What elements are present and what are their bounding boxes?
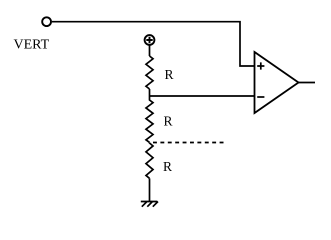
wire top from terminal to op-amp + input <box>52 22 255 66</box>
svg-text:R: R <box>165 67 174 82</box>
op-amp + input mark <box>257 62 264 69</box>
resistor R1 <box>146 56 153 89</box>
wire output <box>299 82 316 84</box>
svg-text:VERT: VERT <box>14 37 50 52</box>
ground <box>141 202 158 207</box>
supply terminal circled plus <box>145 35 155 45</box>
terminal VERT <box>42 17 51 26</box>
wire R3 to ground <box>149 178 151 201</box>
resistor R2 <box>146 96 153 142</box>
svg-text:R: R <box>164 114 173 129</box>
wire R1 to node <box>149 89 151 96</box>
op-amp - input mark <box>257 96 264 98</box>
op-amp U1 <box>255 52 299 113</box>
svg-text:R: R <box>163 159 172 174</box>
wire node to op-amp - input <box>150 95 255 97</box>
resistor R3 <box>146 143 153 179</box>
wire supply to R1 <box>149 45 151 56</box>
dashed tap line <box>153 142 224 144</box>
